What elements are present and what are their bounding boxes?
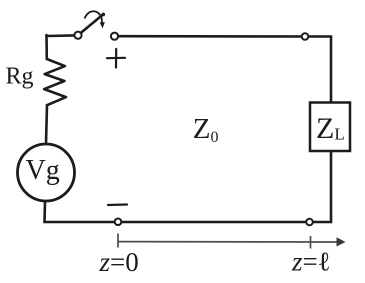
z axis line [118, 241, 339, 243]
wire left vertical above resistor [45, 35, 48, 59]
voltage source Vg [18, 144, 75, 201]
wire top-left horizontal [47, 34, 75, 37]
switch terminal left [74, 32, 81, 39]
plus sign [107, 49, 125, 68]
resistor Rg [44, 59, 66, 105]
node bottom-left (z=0) [115, 219, 122, 226]
node bottom-right (z=l) [306, 219, 313, 226]
minus sign [108, 203, 127, 206]
wire resistor to Vg [46, 105, 47, 143]
tick z=l [310, 236, 312, 249]
wire right vertical lower [330, 151, 333, 222]
wire right vertical upper [330, 37, 333, 103]
switch closing arrow [85, 11, 103, 23]
wire top horizontal to right corner [118, 35, 331, 38]
load ZL box [310, 103, 350, 152]
switch terminal right [111, 33, 118, 40]
axis arrowhead [337, 237, 346, 246]
svg-text:Rg: Rg [6, 64, 34, 90]
svg-text:Vg: Vg [26, 155, 60, 186]
svg-text:z=0: z=0 [99, 247, 139, 277]
tick z=0 [117, 234, 119, 248]
wire Vg to bottom corner [43, 202, 46, 223]
switch blade tip dot [102, 13, 106, 17]
switch blade [81, 14, 103, 33]
node top-right [302, 33, 309, 40]
wire bottom horizontal [45, 221, 332, 224]
svg-text:z=ℓ: z=ℓ [291, 247, 331, 277]
